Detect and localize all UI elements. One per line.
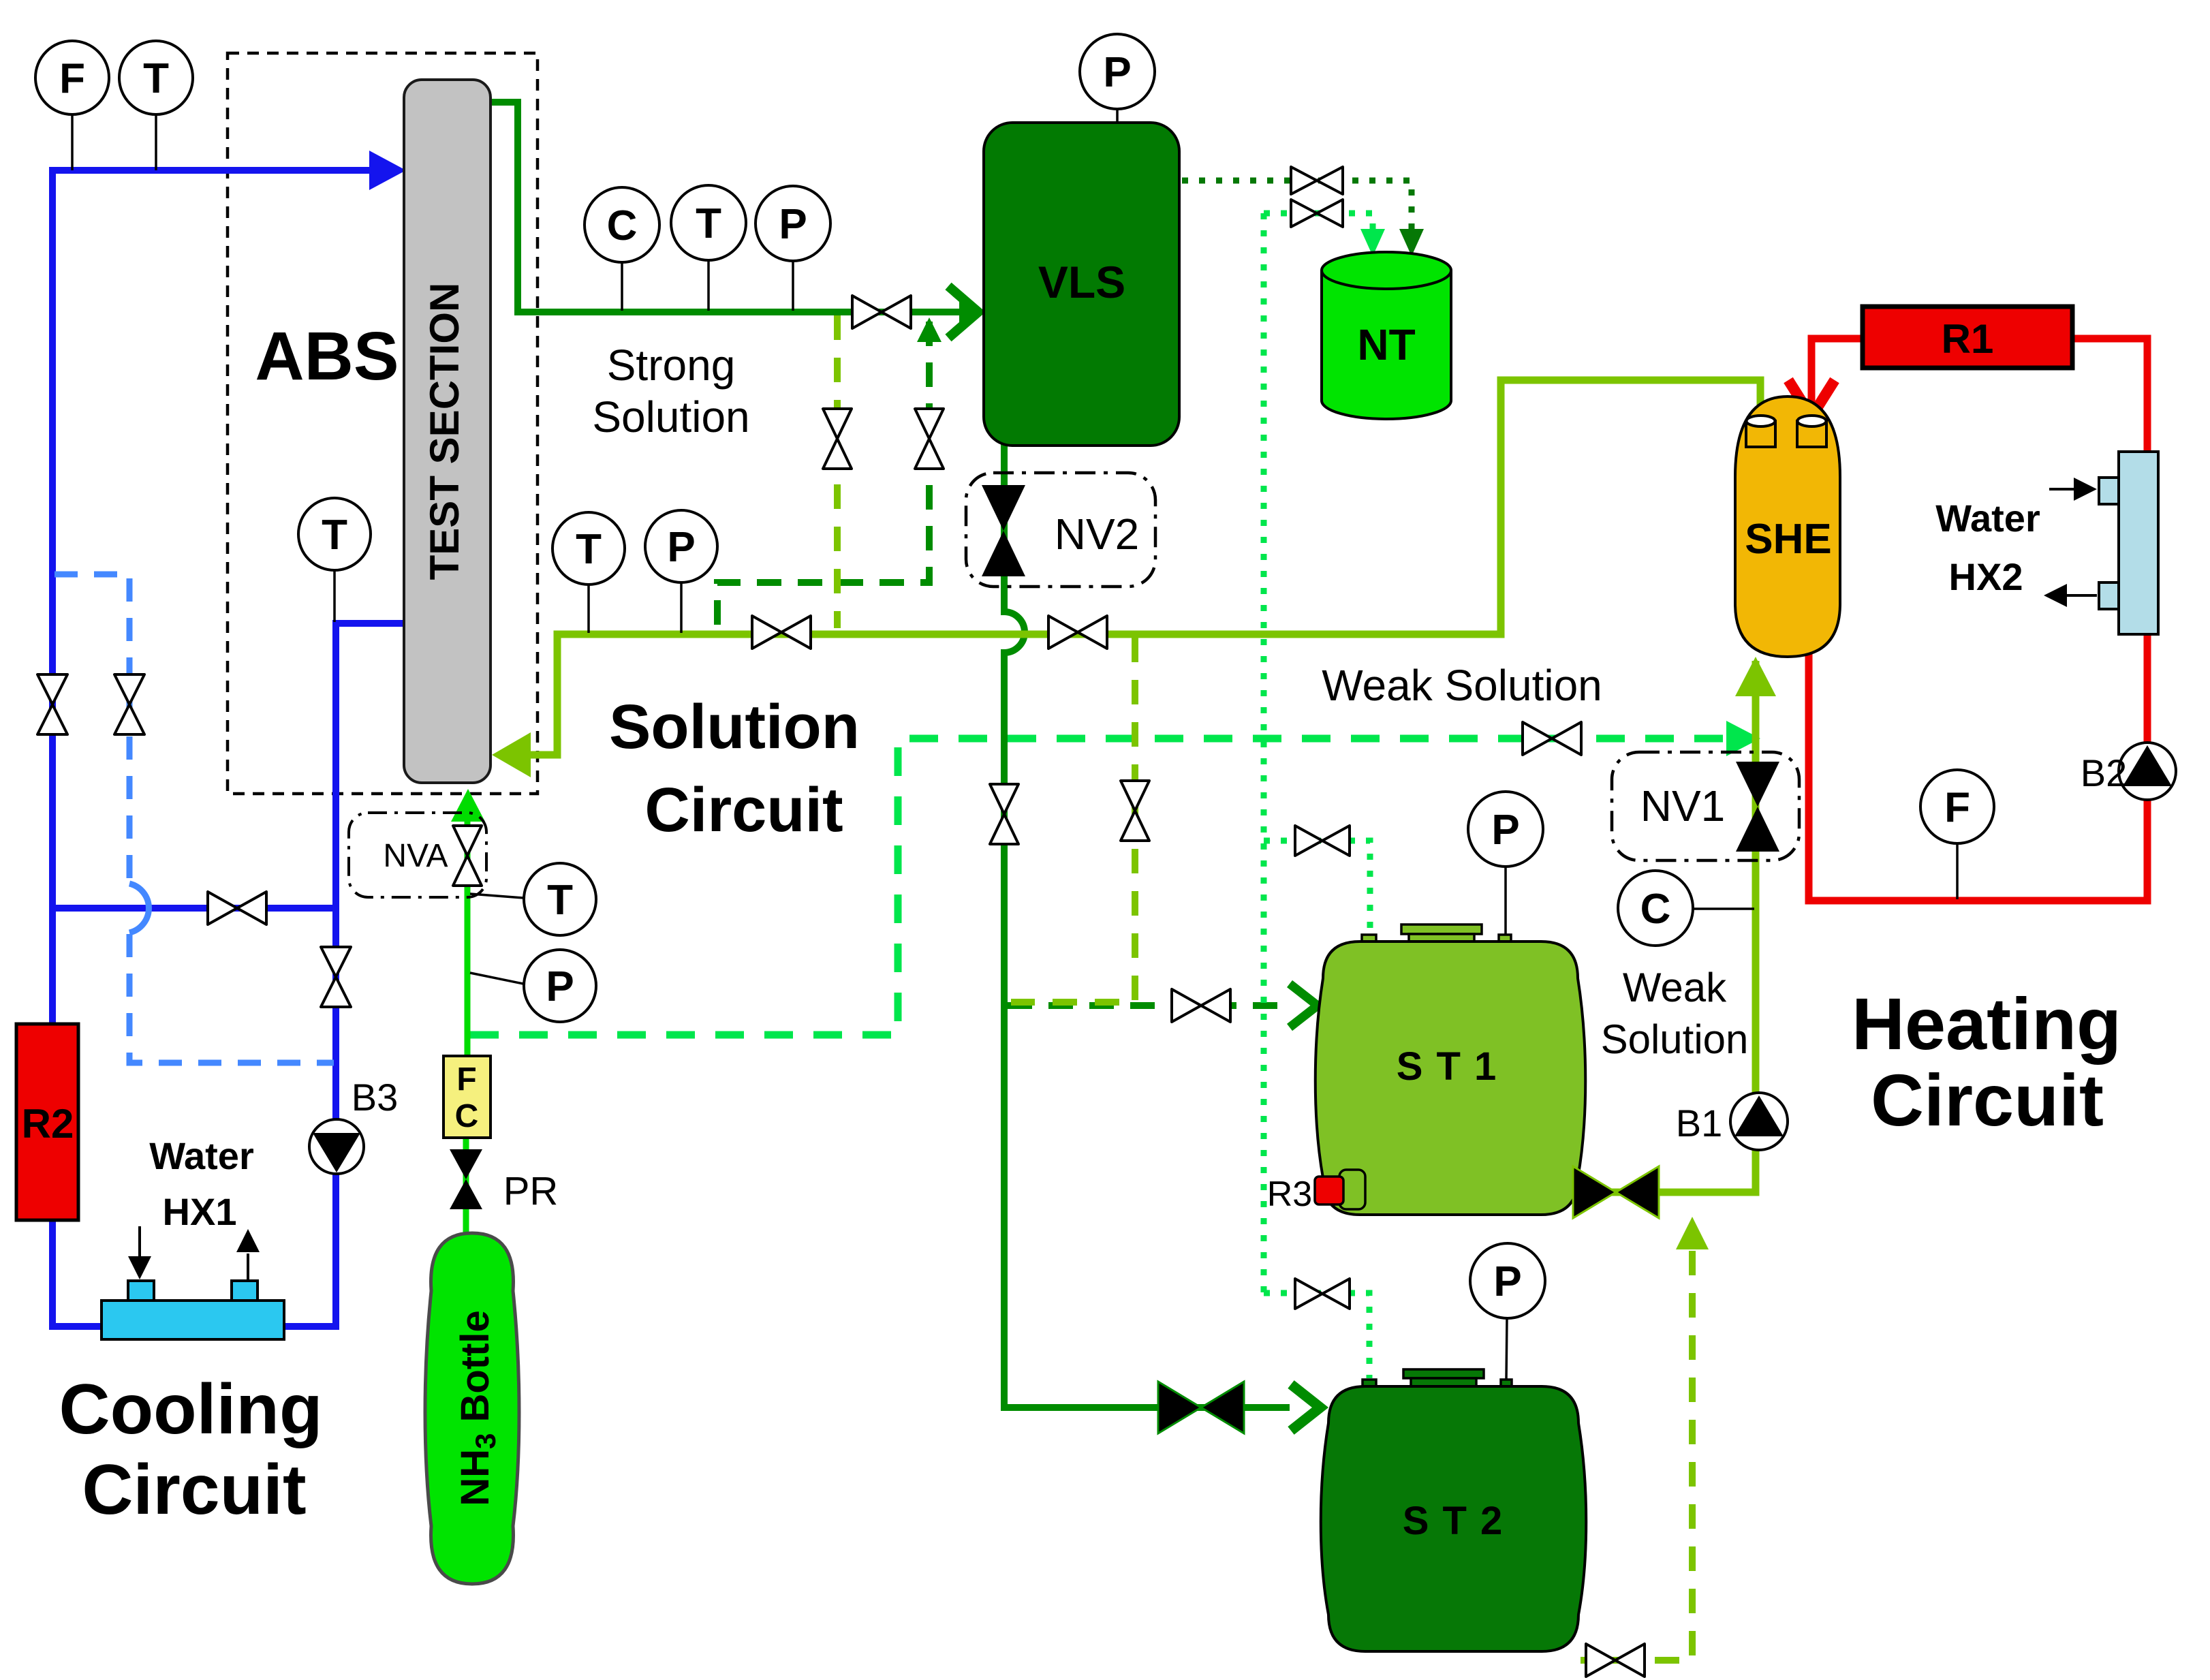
- svg-text:NV1: NV1: [1640, 781, 1726, 830]
- svg-text:T: T: [322, 512, 347, 559]
- pump B2: [2119, 743, 2176, 800]
- arrow: light green dashed up to B1 line: [1676, 1217, 1709, 1249]
- vessel SHE: [1735, 396, 1840, 657]
- svg-text:NT: NT: [1357, 320, 1415, 369]
- drain R3 on ST1: [1315, 1170, 1365, 1209]
- valve: black bowtie ST1 outlet: [1573, 1166, 1659, 1218]
- gauge P (weak solution): [645, 510, 717, 582]
- svg-text:SHE: SHE: [1745, 516, 1831, 563]
- svg-text:NH3 Bottle: NH3 Bottle: [453, 1310, 501, 1506]
- valve on blue riser: [321, 947, 351, 1007]
- gauge T (absorber outlet): [298, 498, 371, 570]
- svg-text:HX2: HX2: [1949, 555, 2023, 598]
- valve on dark green dashed ST1 feed: [1172, 989, 1230, 1022]
- svg-text:C: C: [1640, 886, 1671, 933]
- heater R2: [16, 1024, 78, 1220]
- svg-text:P: P: [1103, 49, 1131, 96]
- pipe: cooling bottom return through HX1: [49, 1323, 339, 1330]
- valve on light green dashed ST2 bottom: [1586, 1644, 1645, 1677]
- pipe: bright green dashed NH3 charge line to weak solution: [470, 738, 1725, 1035]
- valve: black bowtie to ST2: [1158, 1382, 1244, 1433]
- svg-text:Water: Water: [1935, 497, 2040, 540]
- svg-text:C: C: [607, 202, 638, 249]
- svg-text:T: T: [547, 877, 573, 924]
- valve NVA on NH3 line: [453, 826, 482, 886]
- valve on dark dotted NT line: [1291, 167, 1343, 194]
- pressure regulator PR (black hourglass): [450, 1149, 482, 1209]
- gauge T (strong solution): [671, 185, 746, 260]
- svg-text:S T 2: S T 2: [1403, 1499, 1504, 1543]
- valve on weak solution line left: [752, 616, 811, 649]
- box NV1 (dash-dot): [1612, 752, 1799, 860]
- pipe: dark green dotted vapor line VLS to NT: [1182, 181, 1412, 230]
- svg-text:P: P: [1493, 1258, 1521, 1305]
- valve on bright dotted NT line: [1291, 200, 1343, 227]
- svg-text:P: P: [779, 201, 807, 248]
- box NVA (dash-dot): [349, 813, 486, 897]
- pipe: cooling cross branch: [52, 905, 336, 912]
- valve on bright dotted ST2 branch: [1295, 1279, 1350, 1309]
- svg-text:B1: B1: [1676, 1102, 1723, 1145]
- valve on light green dashed tap 2: [1121, 781, 1149, 841]
- gauge T (weak solution): [552, 512, 625, 585]
- gauge P (ST2): [1470, 1243, 1545, 1318]
- svg-text:NVA: NVA: [383, 838, 448, 874]
- svg-text:VLS: VLS: [1038, 257, 1125, 307]
- gauge P (ST1): [1468, 792, 1543, 867]
- valve on blue solid left: [37, 674, 67, 734]
- svg-text:T: T: [696, 200, 721, 247]
- svg-text:T: T: [143, 55, 169, 102]
- pipe: light green dashed taps: [837, 315, 1692, 1660]
- svg-text:R2: R2: [22, 1101, 74, 1147]
- ABS dashed boundary box: [228, 53, 538, 794]
- svg-text:Weak: Weak: [1623, 965, 1727, 1010]
- svg-text:Cooling: Cooling: [59, 1370, 322, 1449]
- svg-text:ABS: ABS: [255, 318, 399, 394]
- svg-text:Circuit: Circuit: [1871, 1059, 2104, 1141]
- pipe: VLS bottom drain via NV2 (dark green vertical): [1004, 443, 1025, 1411]
- svg-text:P: P: [667, 524, 695, 571]
- tank NT (cylinder): [1322, 252, 1451, 419]
- valve on strong solution line: [852, 296, 911, 328]
- arrow: bright dashed into NV1 line: [1726, 721, 1760, 756]
- svg-text:P: P: [546, 963, 574, 1010]
- wire hop: blue dashed arc over branch: [129, 884, 149, 933]
- valves: white bowtie horizontal: [208, 167, 1645, 1677]
- flow controller FC: [443, 1056, 491, 1138]
- valves: white bowtie vertical: [37, 409, 1149, 1007]
- pipe: cooling right riser (B3 line): [336, 623, 404, 1330]
- arrow: dark dotted into NT: [1399, 229, 1424, 256]
- valve on light green dashed tap 1: [823, 409, 852, 469]
- valve on bright dashed weak solution charge: [1523, 722, 1581, 755]
- arrow: dark green dashed up into strong line: [917, 317, 941, 342]
- svg-text:P: P: [1491, 807, 1519, 854]
- arrow: red into SHE: [1788, 380, 1835, 417]
- arrow: dark green dashed into ST1: [1290, 984, 1318, 1027]
- svg-text:F: F: [59, 55, 85, 102]
- svg-text:HX1: HX1: [163, 1190, 237, 1233]
- arrow: blue into TEST SECTION: [369, 151, 406, 190]
- arrow: dark green into ST2: [1291, 1384, 1320, 1431]
- svg-text:Solution: Solution: [1601, 1016, 1749, 1062]
- gauge connectors (thin black): [72, 108, 1957, 1380]
- gauge T (cooling temp): [119, 41, 193, 114]
- gauge F (heating flow): [1920, 770, 1994, 843]
- pipe: NH3 feed line (bright green): [466, 820, 467, 1236]
- valve on dark green vertical: [990, 784, 1018, 844]
- pipe: dark green dashed sampling line (strong solution): [717, 322, 1285, 1006]
- control valve NV1 (black hourglass): [1736, 762, 1779, 852]
- pipe: strong solution (dark green) from test section to VLS: [489, 102, 977, 312]
- gauge C (weak solution B1): [1618, 871, 1693, 946]
- box NV2 (dash-dot): [966, 473, 1155, 587]
- svg-text:Water: Water: [149, 1134, 254, 1177]
- valve on dark green dashed tap: [915, 409, 944, 469]
- valve on weak solution line right: [1048, 616, 1107, 649]
- svg-text:B2: B2: [2081, 751, 2128, 794]
- svg-text:NV2: NV2: [1055, 510, 1140, 559]
- svg-text:TEST SECTION: TEST SECTION: [422, 283, 467, 580]
- svg-text:T: T: [576, 526, 602, 573]
- tank ST1: [1316, 924, 1586, 1215]
- heater R1: [1863, 307, 2072, 368]
- arrow: bright dotted into NT: [1360, 229, 1385, 256]
- arrow: strong solution into VLS: [948, 286, 978, 338]
- svg-text:R3: R3: [1267, 1175, 1312, 1214]
- pipe: weak solution from ST1 via B1 to SHE: [1578, 661, 1756, 1192]
- svg-text:Solution: Solution: [609, 692, 860, 762]
- svg-text:C: C: [455, 1098, 479, 1134]
- svg-text:R1: R1: [1942, 316, 1994, 362]
- svg-text:F: F: [456, 1061, 476, 1098]
- svg-text:PR: PR: [503, 1169, 559, 1213]
- pipe: dark green to ST2: [1001, 1404, 1290, 1411]
- control valve NV2 (black hourglass): [982, 485, 1025, 576]
- pipe: cooling water supply (blue, to test section): [52, 170, 371, 1330]
- pipe: cooling bypass (dashed light blue): [55, 574, 334, 1063]
- gauge P (VLS): [1080, 34, 1155, 109]
- pump B1: [1730, 1093, 1788, 1150]
- heat exchanger Water HX2: [2044, 452, 2158, 634]
- valve on blue dashed: [114, 674, 144, 734]
- gauge F (cooling flow): [35, 41, 109, 114]
- gauge C (strong solution): [585, 187, 659, 262]
- gauge P (strong solution): [756, 186, 830, 261]
- arrow: light green up into SHE: [1735, 657, 1776, 696]
- heat exchanger Water HX1: [102, 1226, 284, 1339]
- svg-text:Heating: Heating: [1852, 982, 2121, 1065]
- gauge T (NH3 line): [524, 863, 596, 935]
- valve on bright dotted ST1 branch: [1295, 826, 1350, 856]
- bottle NH3: [425, 1233, 519, 1584]
- arrow: light green into TEST SECTION: [492, 732, 531, 777]
- arrow: NH3 line up into test section: [451, 789, 485, 822]
- tank ST2: [1321, 1369, 1587, 1651]
- gauge P (NH3 line): [524, 950, 596, 1022]
- pipe: heating circuit red lines: [1809, 339, 2147, 901]
- pump B3: [309, 1119, 364, 1174]
- svg-text:S T 1: S T 1: [1397, 1044, 1498, 1089]
- svg-text:Weak Solution: Weak Solution: [1322, 661, 1602, 710]
- valve on blue branch: [208, 892, 266, 924]
- vessel VLS: [984, 123, 1179, 446]
- svg-text:Strong: Strong: [607, 341, 736, 390]
- component: TEST SECTION column: [404, 80, 491, 783]
- svg-text:Circuit: Circuit: [82, 1450, 306, 1529]
- svg-text:Circuit: Circuit: [644, 775, 843, 845]
- svg-text:B3: B3: [352, 1076, 399, 1119]
- pipe: weak solution return (light green) into test section: [526, 380, 1760, 755]
- svg-text:F: F: [1944, 784, 1970, 831]
- svg-text:Solution: Solution: [592, 392, 749, 441]
- pipe: bright green dotted vent manifold: [1264, 213, 1373, 1378]
